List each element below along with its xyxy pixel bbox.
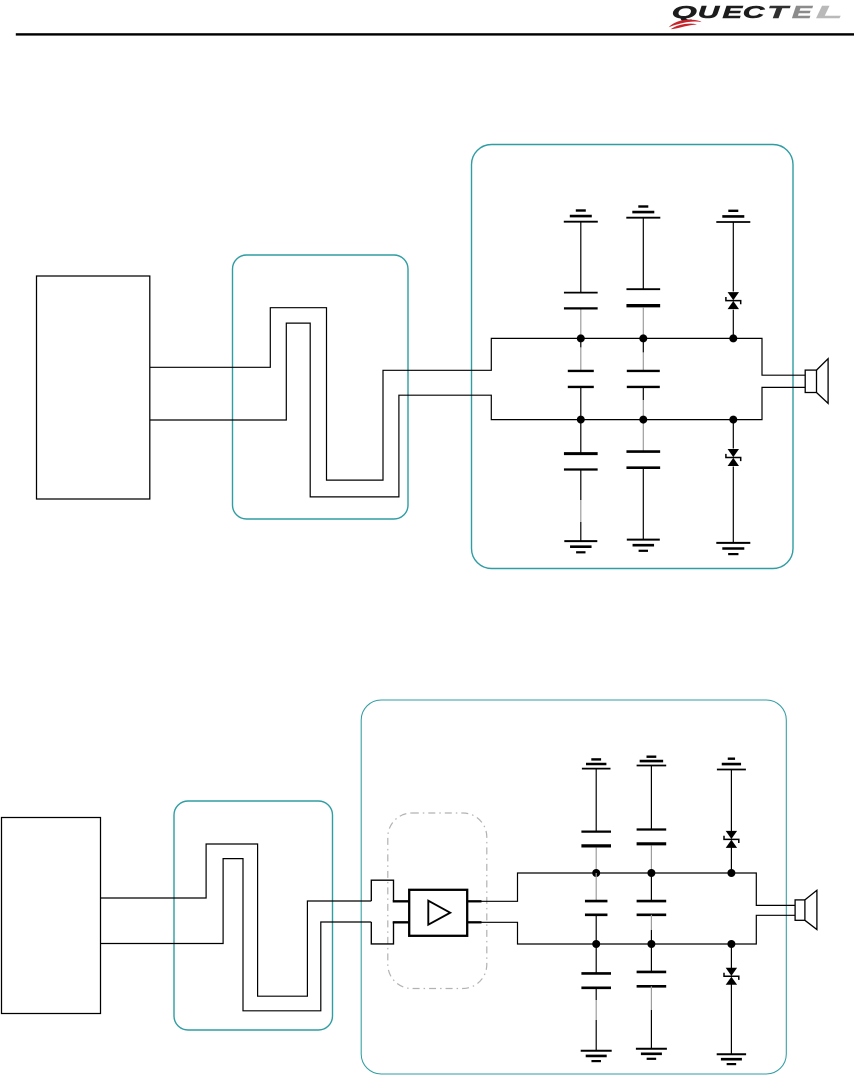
svg-text:E: E xyxy=(792,2,814,22)
svg-text:C: C xyxy=(743,2,765,22)
svg-text:L: L xyxy=(816,2,843,22)
svg-text:Q: Q xyxy=(672,2,698,22)
svg-text:E: E xyxy=(722,2,744,22)
svg-text:U: U xyxy=(698,2,722,22)
svg-text:T: T xyxy=(767,2,790,22)
